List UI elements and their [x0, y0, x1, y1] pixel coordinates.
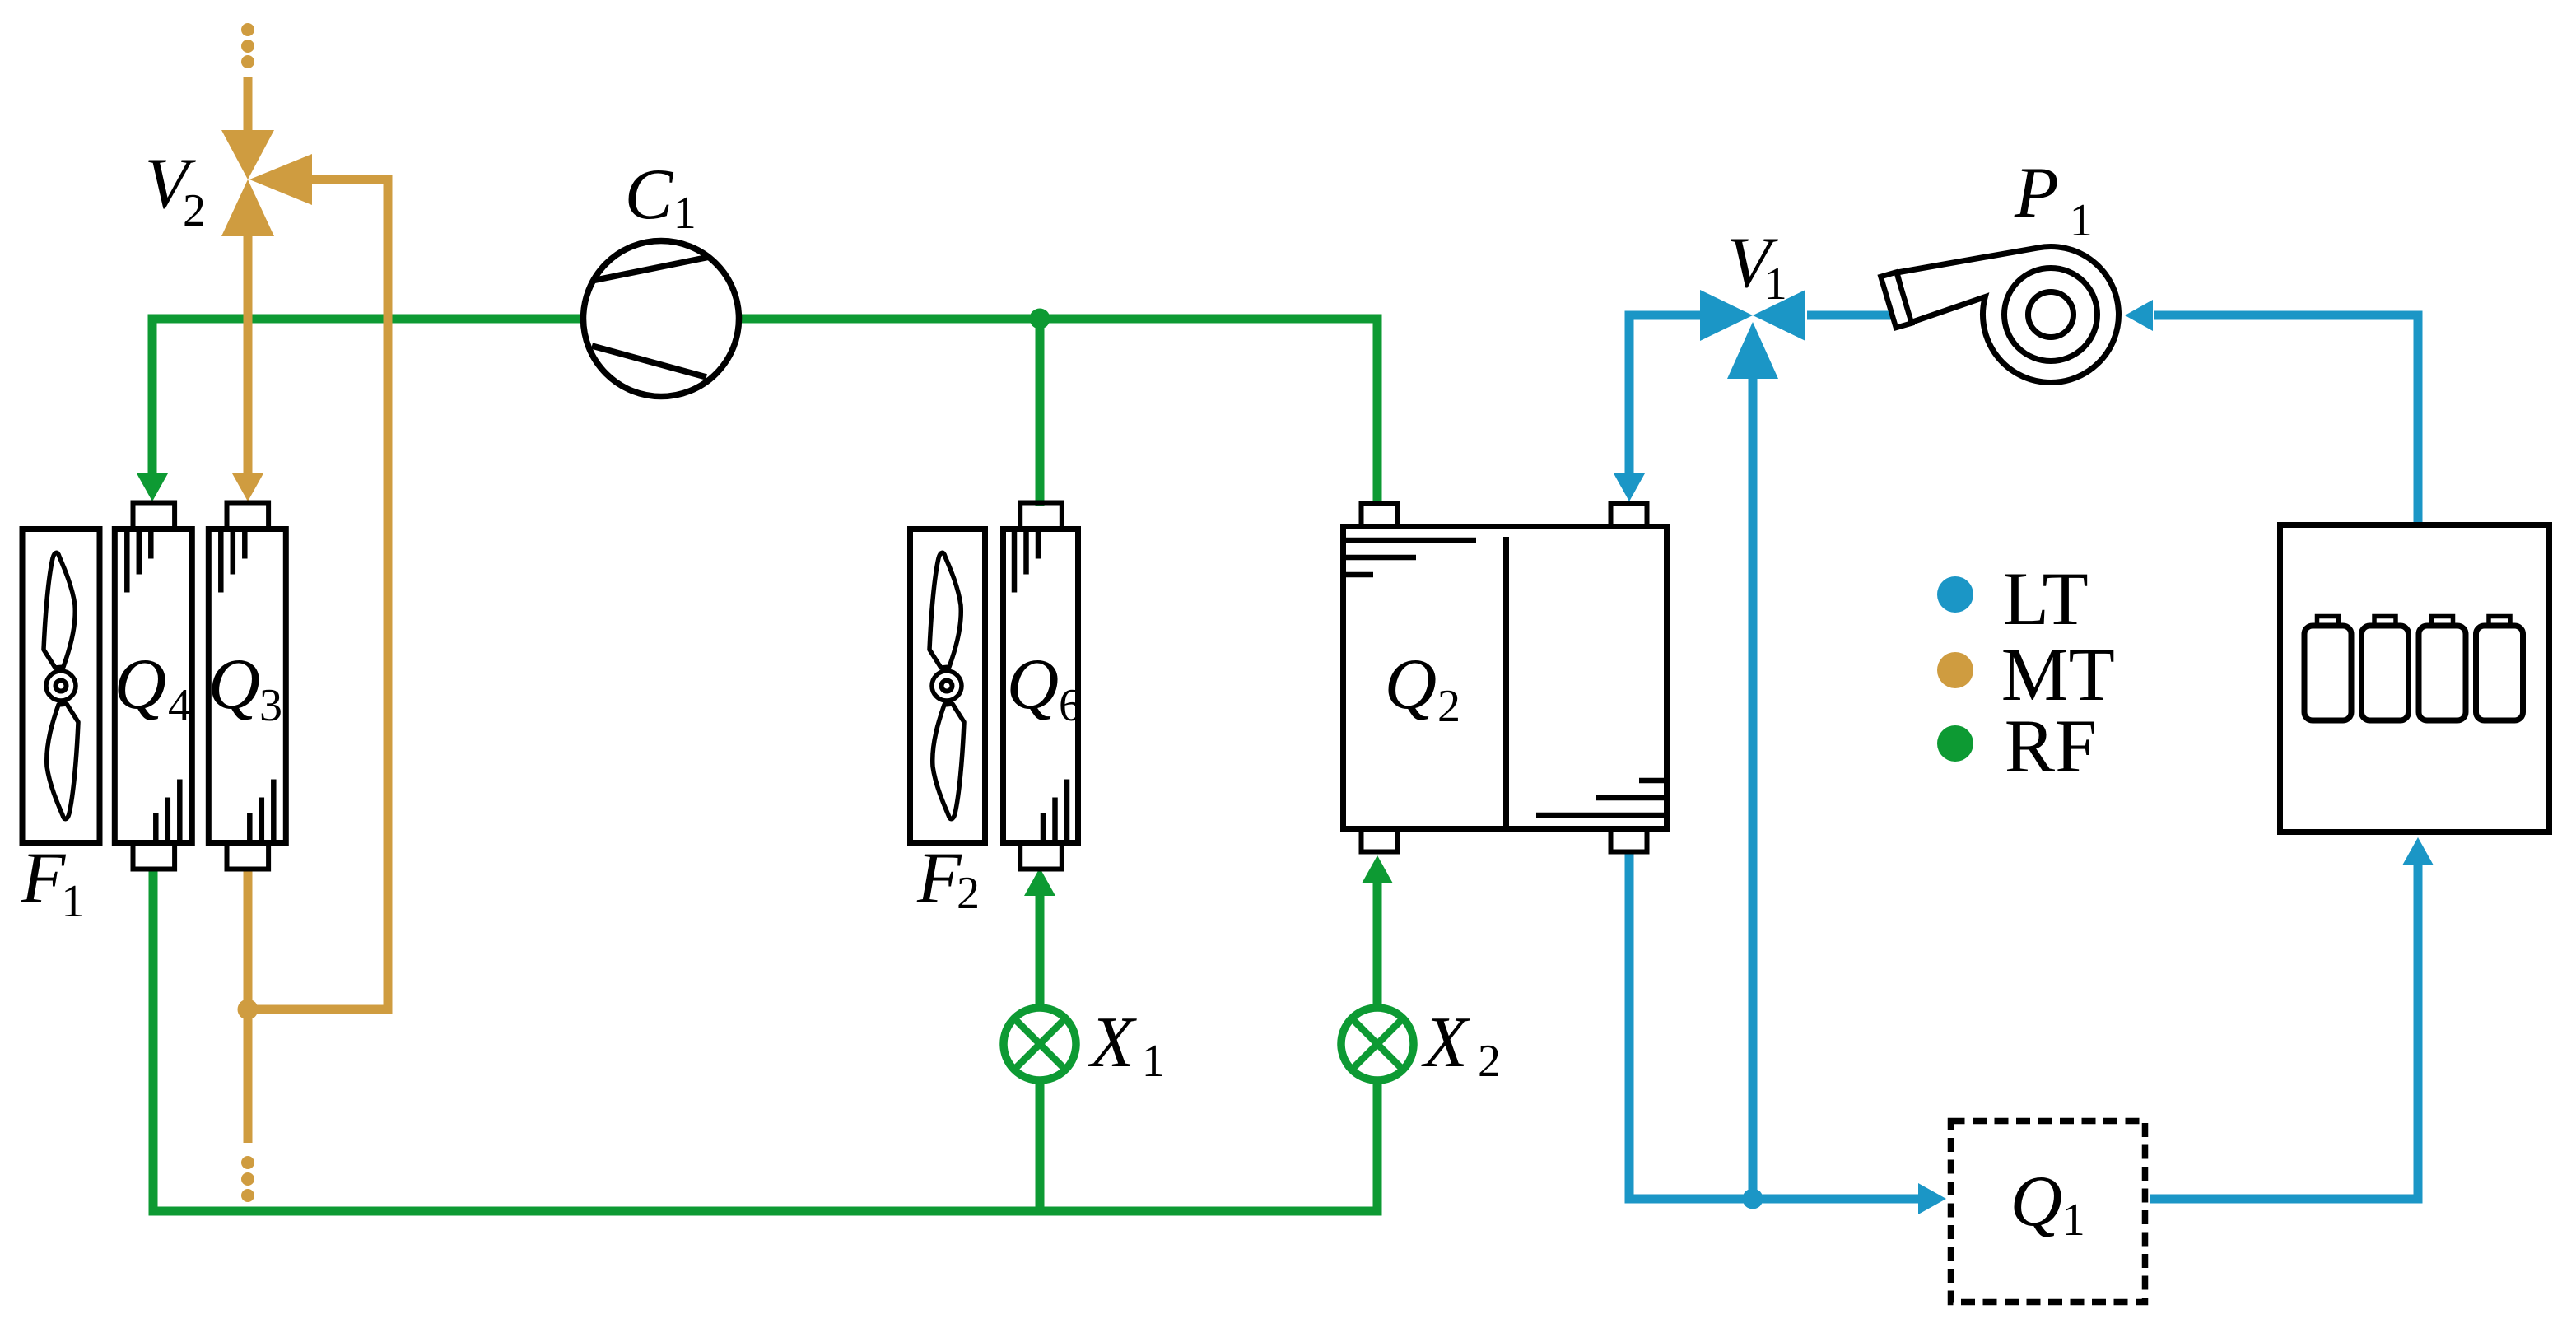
wire RF: X1 outlet up to Q6 bottom port: [1036, 896, 1045, 1005]
pump P1: [1881, 244, 2119, 382]
svg-text:1: 1: [1142, 1036, 1165, 1087]
svg-text:C: C: [625, 155, 674, 235]
wire MT: Q3 bottom port down to continuation dots: [244, 867, 253, 1143]
arrowhead LT into battery bottom: [2402, 837, 2434, 865]
svg-text:4: 4: [168, 680, 191, 731]
svg-text:LT: LT: [2003, 557, 2089, 641]
svg-text:F: F: [21, 839, 67, 919]
svg-text:X: X: [1088, 1003, 1137, 1083]
wire LT: V1 to Q2 top-right port: [1629, 315, 1701, 473]
arrowhead RF into Q4 top port: [137, 473, 168, 501]
wire MT: V2 outlet down to Q3 top port: [244, 235, 253, 473]
arrowhead RF into Q2 bottom-left port: [1362, 855, 1393, 883]
wire LT: Q2 bottom-right port to Q1: [1629, 854, 1919, 1199]
legend dot RF: [1937, 725, 1973, 762]
svg-text:2: 2: [1437, 681, 1460, 732]
svg-text:Q: Q: [1385, 645, 1437, 725]
wire LT: battery top up and left into pump P1: [2154, 315, 2418, 522]
svg-text:2: 2: [1478, 1036, 1501, 1087]
compressor C1: [584, 241, 739, 397]
heat exchanger Q6: [1004, 503, 1078, 869]
svg-text:1: 1: [2062, 1195, 2085, 1246]
valve V1 (3-way): [1700, 290, 1805, 379]
svg-text:P: P: [2014, 153, 2059, 233]
fan F1: [22, 529, 100, 843]
svg-text:F: F: [916, 839, 962, 919]
expansion valve X1: [1004, 1008, 1076, 1080]
svg-text:1: 1: [61, 876, 84, 927]
svg-text:1: 1: [1764, 259, 1787, 310]
wire RF: bottom return line from Q4 to X2: [153, 867, 1377, 1211]
wire RF: compressor C1 suction to condenser Q4 inlet: [152, 319, 584, 473]
legend dot LT: [1937, 576, 1973, 613]
svg-text:3: 3: [259, 680, 282, 731]
junction MT node below Q3: [238, 1000, 259, 1020]
wire RF: X2 outlet up to Q2 bottom-left port: [1373, 883, 1382, 1005]
wire RF: compressor C1 discharge main line to Q2: [739, 319, 1377, 506]
arrowhead MT into Q3 top port: [232, 473, 263, 501]
node MT continuation dots at top: [241, 23, 254, 68]
heat exchanger Q4 (outdoor condenser): [114, 503, 192, 869]
fan F2: [911, 529, 985, 843]
arrowhead LT into Q1: [1918, 1183, 1946, 1214]
wire LT: Q1 outlet to battery bottom: [2150, 865, 2418, 1199]
legend dot MT: [1937, 652, 1973, 688]
svg-text:1: 1: [673, 188, 696, 239]
expansion valve X2: [1341, 1008, 1414, 1080]
arrowhead LT into Q2 top-right port: [1614, 473, 1645, 501]
wire MT: V2 side branch from return riser: [248, 179, 388, 1009]
svg-text:X: X: [1421, 1003, 1470, 1083]
junction LT node below V1: [1743, 1189, 1763, 1209]
wire LT: pump P1 outlet to valve V1: [1807, 311, 1900, 320]
heat exchanger Q3: [208, 503, 286, 869]
wire RF: X1 inlet from bottom return line: [1036, 1083, 1045, 1210]
wire RF: branch down to Q6 top port: [1036, 319, 1045, 506]
svg-text:Q: Q: [114, 645, 167, 725]
svg-text:Q: Q: [2010, 1162, 2063, 1242]
heat load Q1 (dashed box): [1951, 1121, 2145, 1303]
svg-text:1: 1: [2070, 195, 2093, 246]
node MT continuation dots at bottom: [241, 1156, 254, 1202]
heat exchanger Q2 (chiller plate HX): [1344, 504, 1667, 852]
svg-text:2: 2: [183, 185, 206, 236]
wire MT: from continuation dots into valve V2: [244, 77, 253, 132]
arrowhead RF into Q6 bottom port: [1024, 868, 1055, 896]
wire LT: V1 bottom riser: [1749, 377, 1758, 1199]
junction RF node on discharge line: [1030, 309, 1050, 329]
valve V2 (3-way): [221, 130, 312, 236]
svg-text:6: 6: [1059, 680, 1082, 731]
svg-text:2: 2: [957, 868, 980, 919]
svg-text:RF: RF: [2005, 704, 2098, 788]
battery pack: [2280, 525, 2550, 832]
arrowhead LT into pump P1: [2125, 300, 2153, 331]
svg-text:Q: Q: [208, 645, 261, 725]
svg-text:Q: Q: [1007, 645, 1060, 725]
